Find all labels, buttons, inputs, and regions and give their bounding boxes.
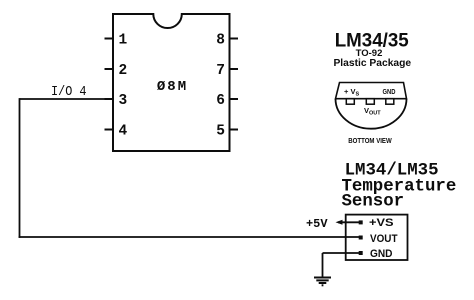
svg-text:Plastic Package: Plastic Package [333,58,411,69]
wire: ground vertical drop [322,253,324,278]
IC U1 08M DIP-8 outline with notch [113,14,230,151]
svg-text:2: 2 [119,63,128,79]
U1 pin 2 stub [105,68,114,70]
U1 pin 3 stub [105,98,114,100]
svg-text:8: 8 [216,33,225,49]
svg-text:GND: GND [370,248,393,260]
svg-text:BOTTOM VIEW: BOTTOM VIEW [348,136,392,145]
U1 pin 7 stub [230,68,239,70]
svg-text:3: 3 [119,93,128,109]
TO-92 package outline: semicircular body [336,99,407,129]
U1 pin 6 stub [230,98,239,100]
wire: sensor GND pin to ground [323,252,361,254]
svg-text:Sensor: Sensor [342,192,405,211]
svg-text:6: 6 [216,93,225,109]
TO-92 pad pin 2 (Vout) [366,99,374,105]
wire: left vertical segment down [19,98,21,238]
arrowhead at +5V wire end [336,220,343,225]
wire: U1 pin 3 left horizontal segment [20,98,114,100]
wire: bottom horizontal segment to sensor VOUT pin [19,236,360,238]
TO-92 pad pin 3 (GND) [386,99,394,105]
svg-text:I/O 4: I/O 4 [51,84,87,100]
sensor pin square +VS [359,220,363,224]
svg-text:Ø8M: Ø8M [157,79,188,95]
U1 pin 8 stub [230,38,239,40]
TO-92 pad pin 1 (+Vs) [346,99,354,105]
svg-text:GND: GND [383,87,396,96]
wire: +5V stub to sensor +VS pin [338,221,360,223]
U1 pin 5 stub [230,129,239,131]
svg-text:4: 4 [119,124,128,140]
svg-text:5: 5 [216,124,225,140]
sensor U2 LM34/LM35 box [346,215,408,260]
svg-text:VOUT: VOUT [370,233,398,245]
U1 pin 4 stub [105,129,114,131]
svg-text:+VS: +VS [369,217,394,229]
TO-92 package outline (bottom view): trapezoid top [336,83,407,99]
U1 pin 1 stub [105,38,114,40]
sensor pin square VOUT [359,236,363,240]
ground symbol [314,278,331,286]
svg-text:7: 7 [216,63,225,79]
svg-text:1: 1 [119,33,128,49]
svg-text:+5V: +5V [306,217,328,231]
sensor pin square GND [359,251,363,255]
